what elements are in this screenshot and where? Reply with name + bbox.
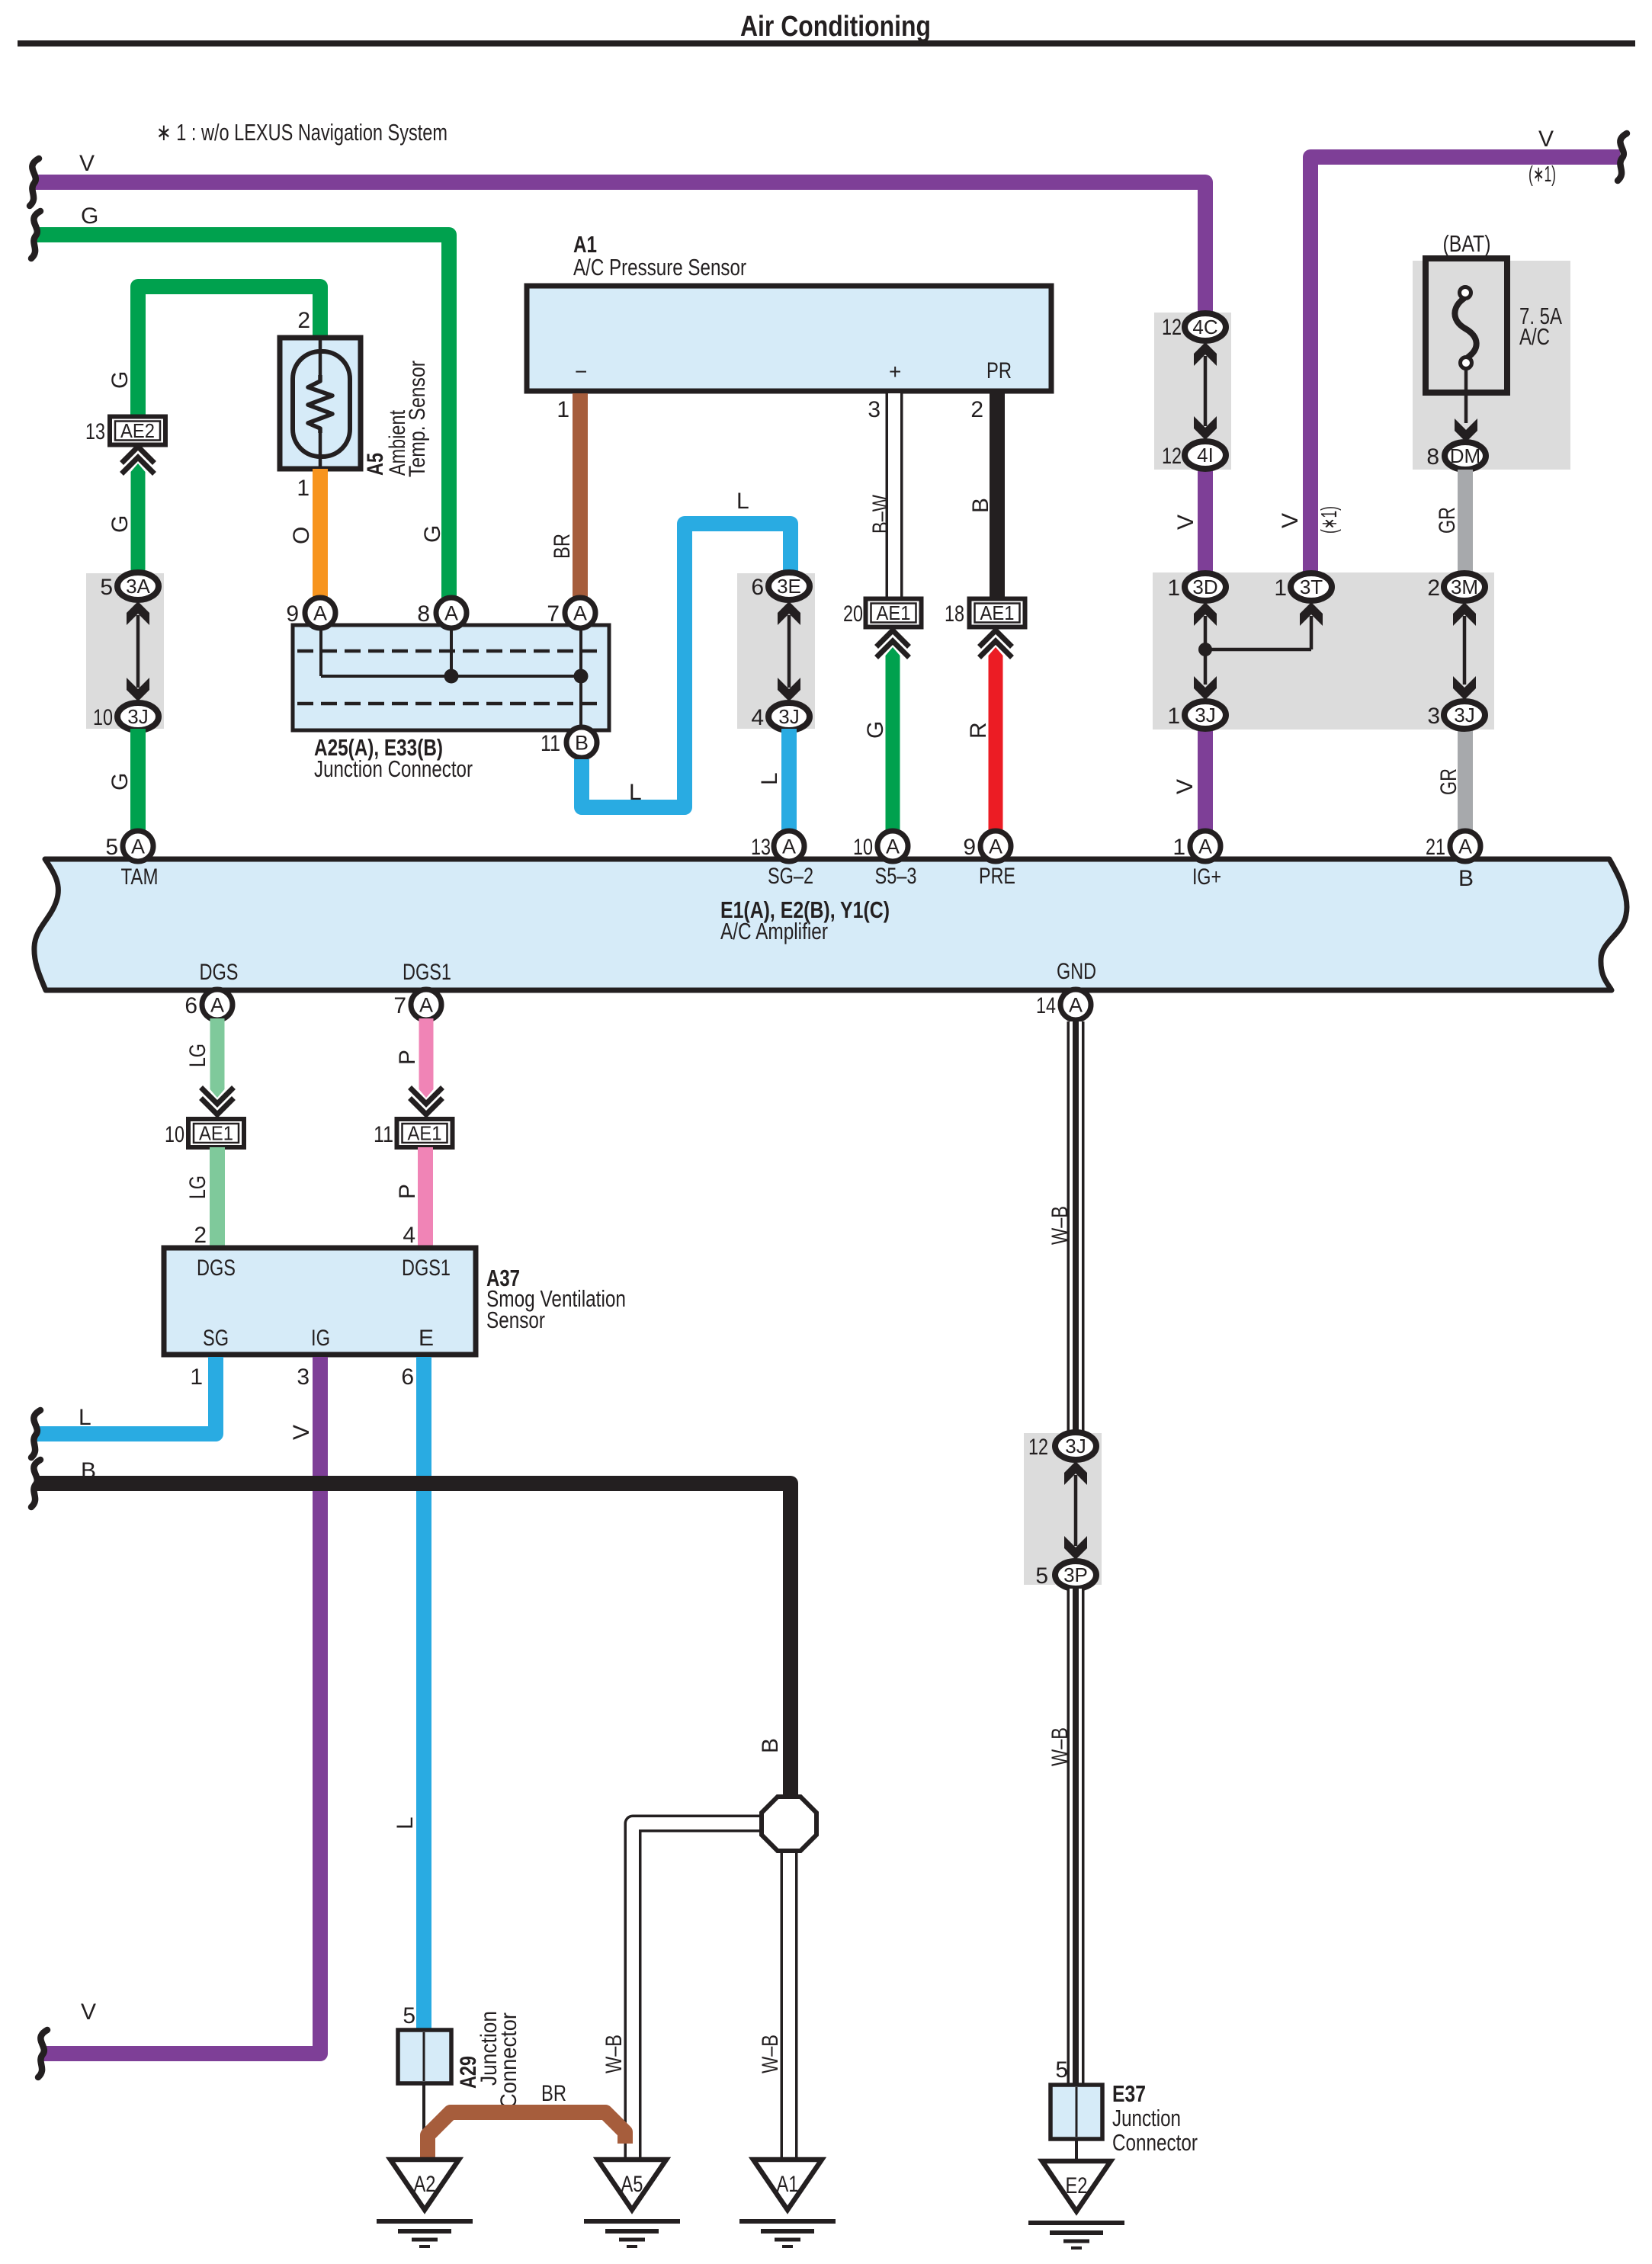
svg-text:PR: PR <box>986 358 1012 383</box>
svg-text:GR: GR <box>1435 507 1460 534</box>
junction connector pin 11 B <box>541 727 597 758</box>
svg-text:3M: 3M <box>1451 576 1478 598</box>
connector 3E pin 6 <box>751 572 810 600</box>
svg-text:2: 2 <box>297 308 310 333</box>
ground A2 <box>377 2160 473 2246</box>
svg-text:1: 1 <box>557 397 569 422</box>
svg-text:DM: DM <box>1450 444 1480 467</box>
svg-text:Junction: Junction <box>1112 2105 1181 2131</box>
connector 3A pin 5 <box>100 572 159 600</box>
connector 4C pin 12 <box>1162 313 1226 341</box>
svg-text:12: 12 <box>1028 1435 1048 1460</box>
svg-text:3J: 3J <box>1195 704 1215 726</box>
splice octagon junction <box>762 1797 816 1851</box>
svg-text:W–B: W–B <box>1047 1206 1073 1245</box>
fuse output arrow into DM <box>1455 368 1477 442</box>
svg-text:G: G <box>81 204 98 229</box>
svg-text:L: L <box>629 780 642 805</box>
svg-text:Connector: Connector <box>496 2012 521 2108</box>
svg-text:P: P <box>395 1050 420 1065</box>
svg-text:A: A <box>419 994 433 1017</box>
label (BAT) <box>1443 230 1491 257</box>
svg-text:21: 21 <box>1426 835 1445 860</box>
connector block 3E/3J (gray) <box>737 573 815 729</box>
connector 3D pin 1 <box>1167 573 1226 601</box>
svg-text:GND: GND <box>1057 959 1096 984</box>
svg-text:G: G <box>107 773 133 790</box>
connector 3P pin 5 <box>1035 1561 1096 1589</box>
svg-text:O: O <box>289 527 314 544</box>
amplifier pin 1 A (IG+) <box>1172 831 1221 861</box>
svg-text:4: 4 <box>751 705 764 730</box>
svg-text:S5–3: S5–3 <box>875 864 917 889</box>
connector block 3D/3T/3M/3J (gray) <box>1153 572 1494 730</box>
svg-text:6: 6 <box>401 1364 414 1390</box>
amplifier pin 14 A (GND) <box>1036 989 1091 1020</box>
svg-text:3P: 3P <box>1063 1563 1088 1586</box>
svg-text:LG: LG <box>185 1044 210 1067</box>
sensor A1 A/C Pressure Sensor <box>527 231 1051 391</box>
svg-text:1: 1 <box>1167 704 1180 729</box>
connector 3J pin 3 (B line) <box>1427 701 1485 729</box>
amplifier pin 13 A (SG-2) <box>751 831 804 861</box>
svg-text:SG: SG <box>203 1326 229 1351</box>
svg-text:A: A <box>1198 835 1212 858</box>
svg-text:AE1: AE1 <box>408 1122 442 1145</box>
wire V (*1) from right break down to connector 3T <box>1278 127 1627 574</box>
svg-text:L: L <box>757 772 782 785</box>
wire W-B octagon to ground A5 <box>601 1823 759 2159</box>
svg-text:V: V <box>1278 513 1303 528</box>
svg-text:3J: 3J <box>127 705 148 728</box>
connector AE1 pin 10 <box>165 1119 244 1147</box>
svg-text:GR: GR <box>1436 768 1461 795</box>
svg-text:B: B <box>1458 866 1474 891</box>
amplifier pin 21 A (B) <box>1426 831 1480 861</box>
junction connector E37 <box>1051 2057 1198 2161</box>
svg-text:TAM: TAM <box>121 864 159 890</box>
connector 4I pin 12 <box>1162 441 1226 469</box>
svg-text:5: 5 <box>105 835 118 860</box>
svg-text:18: 18 <box>945 601 964 627</box>
wire G 3J to amplifier pin TAM <box>107 729 138 833</box>
svg-text:1: 1 <box>1172 835 1185 860</box>
amplifier pin 9 A (PRE) <box>963 831 1011 861</box>
svg-text:1: 1 <box>190 1364 203 1390</box>
svg-text:(BAT): (BAT) <box>1443 230 1491 257</box>
svg-text:3J: 3J <box>778 705 799 728</box>
connector 3J pin 1 (IG+ line) <box>1167 701 1226 729</box>
connector 3T pin 1 <box>1274 573 1332 601</box>
A/C Amplifier E1(A), E2(B), Y1(C) <box>34 859 1627 990</box>
junction connector A29 <box>398 2011 521 2160</box>
svg-text:A: A <box>444 602 458 625</box>
svg-text:PRE: PRE <box>979 864 1015 889</box>
wire LG amplifier DGS to AE1 pin 10 <box>185 1018 225 1098</box>
svg-text:E2: E2 <box>1066 2173 1088 2198</box>
svg-text:A: A <box>210 994 224 1017</box>
svg-text:1: 1 <box>1274 576 1287 601</box>
wire G (green) from left break to junction connector pin 8 <box>31 204 449 599</box>
wire V (violet) A37 IG down to left break <box>38 1357 320 2077</box>
svg-text:13: 13 <box>751 835 771 860</box>
svg-text:2: 2 <box>194 1223 207 1248</box>
svg-text:12: 12 <box>1162 444 1182 469</box>
svg-text:5: 5 <box>403 2003 415 2028</box>
svg-text:V: V <box>79 151 95 176</box>
svg-text:20: 20 <box>843 601 863 627</box>
svg-text:Sensor: Sensor <box>486 1307 545 1333</box>
svg-text:L: L <box>393 1817 418 1829</box>
svg-text:13: 13 <box>85 419 105 444</box>
wire BR (brown) A1 pin 1 to junction connector pin 7 <box>550 393 580 599</box>
chevron into AE1 pin 10 <box>203 1089 232 1114</box>
wire P amplifier DGS1 to AE1 pin 11 <box>395 1018 434 1098</box>
connector block 3J/3P (gray) <box>1024 1433 1102 1585</box>
wire BR (brown) A29 lead to ground A5 lead <box>428 2081 625 2161</box>
svg-text:B: B <box>968 498 993 513</box>
amplifier pin 10 A (S5-3) <box>853 831 908 861</box>
wire G branch linking AE2 to A5 pin 2 <box>107 287 320 416</box>
wire O (orange) A5 pin 1 to junction connector pin 9 <box>289 469 320 599</box>
chevron into AE1 pin 20 <box>878 630 907 656</box>
svg-text:(∗1): (∗1) <box>1529 162 1556 187</box>
connector 3J pin 4 <box>751 703 810 730</box>
title "Air Conditioning" <box>740 11 931 43</box>
svg-text:7: 7 <box>393 993 406 1018</box>
svg-text:BR: BR <box>541 2081 566 2106</box>
svg-text:3: 3 <box>868 397 881 422</box>
svg-text:9: 9 <box>286 601 299 627</box>
svg-text:W–B: W–B <box>1047 1727 1073 1766</box>
ground E2 <box>1028 2161 1124 2248</box>
connector DM pin 8 <box>1426 442 1486 470</box>
svg-text:A: A <box>573 602 587 625</box>
svg-text:3T: 3T <box>1300 576 1323 598</box>
connector AE1 pin 11 <box>374 1119 453 1147</box>
svg-text:(∗1): (∗1) <box>1317 506 1342 534</box>
svg-text:9: 9 <box>963 835 976 860</box>
wire G AE2 to connector 3A <box>107 463 146 574</box>
wire P AE1 pin 11 to A37 DGS1 <box>395 1147 425 1250</box>
svg-text:V: V <box>1173 515 1198 530</box>
chevron into AE2 <box>123 447 152 472</box>
wire V (violet) from left break to connector 4C and on to amplifier IG+ <box>30 151 1205 833</box>
svg-text:10: 10 <box>853 835 873 860</box>
svg-text:8: 8 <box>1426 444 1439 470</box>
svg-text:A: A <box>782 835 796 858</box>
connector 3M pin 2 <box>1427 573 1485 601</box>
svg-text:BR: BR <box>550 534 575 559</box>
wire GR (gray) 3J to amplifier pin B <box>1436 728 1465 833</box>
wire W-B connector 3P to junction connector E37 <box>1047 1589 1076 2083</box>
connector block 4C/4I (gray) <box>1154 313 1231 470</box>
svg-text:AE1: AE1 <box>199 1122 233 1145</box>
svg-text:R: R <box>966 722 991 739</box>
svg-text:A2: A2 <box>414 2172 436 2197</box>
amplifier pin 5 A (TAM) <box>105 831 153 861</box>
wire B-W A1 pin 3 to AE1 pin 20 <box>868 393 894 597</box>
svg-text:8: 8 <box>417 601 430 627</box>
svg-text:DGS1: DGS1 <box>402 1255 451 1281</box>
svg-text:DGS: DGS <box>200 960 239 985</box>
fuse 7.5A A/C <box>1426 258 1562 393</box>
svg-text:A: A <box>313 602 327 625</box>
connector AE2 pin 13 <box>85 417 165 445</box>
svg-text:4C: 4C <box>1192 316 1217 338</box>
svg-text:Temp. Sensor: Temp. Sensor <box>405 361 430 477</box>
ground A1 <box>739 2160 836 2246</box>
svg-text:A1: A1 <box>777 2172 799 2197</box>
svg-text:5: 5 <box>1035 1563 1048 1589</box>
svg-text:Junction Connector: Junction Connector <box>314 755 473 782</box>
svg-text:10: 10 <box>93 705 113 730</box>
svg-text:4: 4 <box>403 1223 415 1248</box>
svg-text:3D: 3D <box>1192 576 1217 598</box>
svg-text:SG–2: SG–2 <box>768 864 813 889</box>
svg-text:V: V <box>1172 779 1198 794</box>
connector AE1 pin 20 <box>843 599 922 627</box>
svg-text:+: + <box>889 360 901 383</box>
svg-text:∗ 1 : w/o LEXUS Navigation Sys: ∗ 1 : w/o LEXUS Navigation System <box>156 119 447 146</box>
svg-text:11: 11 <box>374 1122 393 1147</box>
sensor A37 Smog Ventilation Sensor <box>164 1248 626 1355</box>
svg-text:L: L <box>736 489 749 514</box>
svg-text:3: 3 <box>1427 704 1440 729</box>
svg-text:P: P <box>395 1184 420 1199</box>
svg-text:E37: E37 <box>1112 2080 1146 2107</box>
svg-text:AE2: AE2 <box>120 419 155 442</box>
svg-text:3A: 3A <box>126 575 150 598</box>
title underline rule <box>18 40 1635 46</box>
battery feed gray block <box>1413 261 1570 470</box>
svg-text:B: B <box>758 1738 783 1753</box>
svg-text:G: G <box>107 515 133 533</box>
svg-text:2: 2 <box>970 397 983 422</box>
svg-text:7: 7 <box>547 601 560 627</box>
svg-text:B–W: B–W <box>868 494 893 534</box>
svg-text:1: 1 <box>297 476 310 501</box>
svg-text:6: 6 <box>184 993 197 1018</box>
svg-text:A/C: A/C <box>1519 323 1550 350</box>
svg-text:A: A <box>131 835 145 858</box>
amplifier pin 6 A (DGS) <box>184 989 233 1020</box>
sensor A5 Ambient Temp. Sensor <box>280 338 430 477</box>
wire W-B octagon to ground A1 <box>758 1853 789 2159</box>
svg-text:2: 2 <box>1427 576 1440 601</box>
svg-text:DGS1: DGS1 <box>403 960 451 985</box>
svg-text:AE1: AE1 <box>877 601 911 624</box>
ground A5 <box>584 2160 680 2246</box>
svg-text:6: 6 <box>751 575 764 600</box>
connector 3J pin 10 <box>93 703 159 730</box>
svg-text:L: L <box>79 1405 91 1430</box>
junction connector pin 8 A <box>417 598 467 628</box>
wire L 3J to amplifier pin SG-2 <box>757 729 789 833</box>
svg-text:V: V <box>1538 127 1554 152</box>
svg-text:E: E <box>419 1326 434 1351</box>
svg-text:−: − <box>575 360 587 383</box>
svg-text:12: 12 <box>1162 315 1182 340</box>
svg-text:G: G <box>420 525 445 543</box>
chevron into AE1 pin 11 <box>412 1089 441 1114</box>
svg-text:V: V <box>81 1999 96 2025</box>
wire W-B amplifier GND to connector 3J <box>1047 1021 1076 1432</box>
svg-text:A: A <box>1458 835 1472 858</box>
svg-text:14: 14 <box>1036 993 1056 1018</box>
wire B (black) A1 pin 2 to AE1 pin 18 <box>968 393 997 597</box>
svg-text:A5: A5 <box>621 2172 643 2197</box>
svg-text:10: 10 <box>165 1122 184 1147</box>
connector 3J pin 12 <box>1028 1432 1096 1460</box>
svg-text:B: B <box>575 732 589 755</box>
connector AE1 pin 18 <box>945 599 1025 627</box>
wire L (blue) junction pin 11 to connector 3E <box>582 489 791 807</box>
svg-text:3J: 3J <box>1065 1435 1086 1457</box>
wire R (red) amplifier PRE to AE1 pin 18 <box>966 647 1003 832</box>
svg-text:3J: 3J <box>1454 704 1474 726</box>
chevron into AE1 pin 18 <box>981 630 1010 656</box>
wire L (blue) A37 SG to left break <box>31 1357 216 1457</box>
note "w/o LEXUS Navigation System" <box>156 119 447 146</box>
svg-text:W–B: W–B <box>601 2035 627 2073</box>
svg-text:A: A <box>1069 994 1083 1017</box>
wire B (black) from left break to junction octagon <box>31 1458 791 1794</box>
svg-text:IG: IG <box>311 1326 330 1351</box>
svg-text:3E: 3E <box>777 575 801 598</box>
connector block 3A/3J (gray) <box>86 573 164 729</box>
wire G (green) amplifier S5-3 to AE1 pin 20 <box>863 647 900 832</box>
svg-text:V: V <box>289 1425 314 1440</box>
junction connector A25(A), E33(B) <box>293 625 609 782</box>
svg-text:Air Conditioning: Air Conditioning <box>740 11 931 43</box>
svg-text:A/C Pressure Sensor: A/C Pressure Sensor <box>573 254 746 281</box>
svg-text:Connector: Connector <box>1112 2129 1198 2156</box>
junction connector pin 7 A <box>547 598 595 628</box>
svg-text:DGS: DGS <box>197 1255 236 1281</box>
svg-text:W–B: W–B <box>758 2035 783 2073</box>
junction connector pin 9 A <box>286 598 335 628</box>
svg-text:4I: 4I <box>1197 444 1214 467</box>
svg-text:A/C Amplifier: A/C Amplifier <box>720 918 828 944</box>
wire L (blue) A37 E down to junction connector A29 <box>393 1357 424 2028</box>
wire LG AE1 pin 10 to A37 DGS <box>185 1147 217 1250</box>
svg-text:A: A <box>989 835 1002 858</box>
wire GR (gray) DM to 3M <box>1435 470 1465 574</box>
svg-text:5: 5 <box>1055 2057 1068 2083</box>
svg-text:G: G <box>863 721 888 739</box>
svg-text:G: G <box>107 371 133 389</box>
svg-text:5: 5 <box>100 575 113 600</box>
svg-text:IG+: IG+ <box>1192 864 1221 890</box>
svg-text:1: 1 <box>1167 576 1180 601</box>
svg-text:B: B <box>81 1458 96 1483</box>
svg-text:11: 11 <box>541 731 560 756</box>
svg-text:LG: LG <box>185 1175 210 1199</box>
svg-text:3: 3 <box>297 1364 310 1390</box>
svg-text:AE1: AE1 <box>980 601 1015 624</box>
amplifier pin 7 A (DGS1) <box>393 989 441 1020</box>
svg-text:A: A <box>886 835 900 858</box>
